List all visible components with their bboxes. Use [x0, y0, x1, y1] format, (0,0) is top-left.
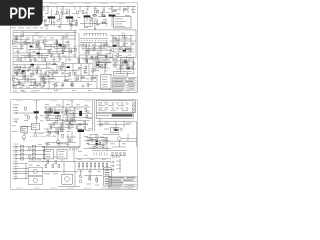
zone number [50, 100, 57, 103]
wire [80, 64, 82, 82]
resistor R63 [21, 149, 24, 152]
label [113, 58, 117, 61]
wire [106, 42, 108, 50]
label [61, 124, 65, 127]
label [84, 135, 88, 138]
label [30, 46, 34, 49]
meter M1 box [121, 58, 134, 74]
border tick [64, 99, 66, 100]
wire [52, 50, 74, 52]
capacitor C55 [43, 85, 45, 87]
wire [16, 65, 18, 76]
resistor R82 [69, 139, 71, 142]
label [113, 66, 117, 69]
label [59, 155, 65, 158]
wire dashed signal [44, 132, 56, 134]
label [24, 132, 28, 135]
wire [118, 141, 120, 148]
transistor Q14 [114, 129, 118, 131]
label [20, 89, 24, 92]
border tick [47, 189, 49, 190]
wire [28, 161, 45, 163]
label [65, 8, 69, 11]
resistor R104 [125, 48, 128, 50]
junction [72, 113, 73, 114]
label [62, 36, 66, 39]
label [52, 83, 56, 86]
wire [112, 10, 117, 12]
junction [73, 56, 76, 59]
label [112, 58, 116, 61]
wire [52, 68, 54, 79]
wire [71, 131, 73, 143]
capacitor C15 [120, 48, 122, 50]
resistor R127 [71, 119, 73, 122]
connector J11 [110, 169, 114, 171]
wire [127, 7, 129, 14]
label [125, 66, 129, 69]
transistor Q7 [113, 45, 117, 47]
resistor R120 [42, 76, 44, 79]
label [21, 84, 26, 87]
label [78, 66, 82, 69]
wire [52, 63, 57, 65]
zone number [16, 2, 23, 5]
wire [47, 7, 49, 14]
zone number [84, 2, 91, 5]
label [13, 90, 17, 93]
wire [30, 74, 32, 86]
wire [36, 100, 38, 111]
junction [57, 48, 58, 49]
border tick [47, 99, 49, 100]
label [26, 56, 29, 59]
sub box [98, 56, 108, 63]
label [68, 58, 72, 61]
resistor R54 [84, 122, 86, 125]
label [84, 52, 88, 55]
label [44, 78, 47, 81]
label [40, 19, 44, 22]
wire [79, 45, 110, 47]
capacitor C34 [112, 107, 114, 109]
label [14, 77, 18, 80]
wire [53, 72, 58, 74]
zone number [84, 187, 91, 190]
label [72, 12, 76, 15]
label [111, 46, 115, 49]
resistor R52 [85, 109, 87, 112]
label [116, 70, 120, 73]
transistor Q3 [84, 15, 91, 17]
label [46, 134, 50, 137]
label [121, 58, 125, 61]
wire [101, 15, 106, 17]
resistor R67 [21, 157, 24, 160]
capacitor C40 [79, 175, 82, 178]
resistor R56 [84, 127, 86, 130]
label [76, 103, 80, 106]
wire [56, 7, 58, 14]
label [44, 40, 47, 43]
resistor R59 [99, 107, 102, 109]
label [14, 143, 19, 146]
label [88, 48, 91, 51]
wire [66, 113, 92, 115]
label [127, 56, 130, 59]
capacitor C6 [124, 8, 126, 10]
resistor R65 [21, 153, 24, 156]
junction [128, 6, 129, 7]
resistor R98 [123, 35, 125, 38]
wire [54, 84, 56, 89]
label [105, 182, 110, 185]
resistor R133 [99, 142, 101, 145]
label [116, 167, 121, 170]
connector input R [13, 112, 17, 114]
label [112, 36, 116, 39]
transformer T1 [65, 177, 70, 182]
junction [112, 6, 113, 7]
capacitor C25 [62, 84, 64, 86]
wire [41, 53, 43, 62]
label [14, 45, 18, 48]
label [103, 147, 107, 150]
resistor R64 [33, 149, 36, 152]
label [110, 109, 116, 112]
title text [127, 187, 133, 190]
label [110, 142, 115, 145]
capacitor C45 [103, 11, 105, 13]
wire [62, 100, 64, 131]
label [49, 124, 53, 127]
resistor R116 [72, 84, 74, 87]
capacitor C27 [73, 119, 75, 121]
resistor R94 [75, 22, 77, 25]
wire [78, 33, 80, 60]
junction [55, 112, 56, 113]
wire [47, 128, 49, 134]
junction [44, 146, 45, 147]
zone number [67, 187, 74, 190]
border tick [13, 99, 15, 100]
capacitor C41 [79, 180, 82, 183]
ground symbol [23, 139, 26, 141]
wire [21, 14, 23, 19]
label [32, 78, 36, 81]
connector J8 [13, 178, 17, 180]
wire [90, 57, 112, 59]
resistor R109 [55, 72, 58, 74]
label [41, 41, 45, 44]
resistor R27 [91, 56, 93, 59]
wire [14, 36, 16, 44]
resistor R96 [102, 22, 105, 24]
label [65, 41, 69, 44]
resistor R23 [115, 38, 117, 41]
wire [116, 57, 118, 65]
wire [112, 54, 114, 59]
zone number [50, 187, 57, 190]
resistor R75 [120, 66, 122, 69]
label [104, 43, 108, 46]
zone number [16, 187, 23, 190]
wire [50, 9, 52, 24]
label [56, 104, 61, 107]
wire [53, 57, 55, 62]
label [14, 66, 18, 69]
label [95, 60, 99, 63]
label [110, 13, 114, 16]
label [75, 76, 78, 79]
junction [111, 15, 114, 18]
capacitor C8 [39, 47, 41, 49]
zone number [118, 2, 125, 5]
wire [14, 72, 26, 74]
resistor R29 [19, 67, 21, 70]
label [44, 172, 50, 175]
wire [20, 35, 22, 49]
capacitor C21 [55, 120, 58, 123]
label [132, 11, 136, 14]
wire [112, 60, 134, 62]
wire [44, 24, 76, 26]
wire [84, 140, 110, 142]
resistor R125 [59, 116, 61, 119]
wire [86, 8, 88, 22]
resistor R123 [34, 81, 36, 84]
capacitor C46 [69, 23, 71, 25]
label [13, 109, 18, 112]
junction [39, 57, 40, 58]
label [88, 89, 92, 92]
label [74, 19, 78, 22]
transistor Q10 [67, 66, 70, 68]
resistor R106 [62, 64, 64, 67]
wire [57, 127, 59, 140]
capacitor C26 [82, 85, 84, 87]
resistor R19 [62, 50, 64, 53]
label [65, 33, 68, 36]
capacitor C9 [51, 54, 53, 56]
label [105, 173, 110, 176]
title text [127, 84, 135, 85]
connector pin 3 [132, 108, 134, 110]
label [61, 61, 64, 64]
resistor R2 [61, 12, 63, 15]
wire [97, 19, 99, 26]
wire bus [44, 147, 46, 161]
title text [128, 78, 135, 79]
resistor R1 [57, 12, 59, 15]
wire [66, 124, 88, 126]
capacitor C48 [105, 44, 107, 46]
relay RY1 box [114, 17, 132, 29]
junction [22, 84, 25, 87]
wire comb cap [84, 32, 106, 34]
label [98, 104, 105, 107]
label [45, 153, 50, 156]
capacitor C56 [61, 84, 63, 86]
connector plate 2 [104, 177, 111, 186]
label [54, 156, 58, 159]
junction [36, 85, 39, 88]
resistor R87 [66, 11, 68, 14]
wire [73, 107, 75, 120]
zone number [101, 100, 108, 103]
border tick [30, 189, 32, 190]
wire [46, 130, 64, 132]
label [125, 14, 130, 17]
label [102, 158, 106, 161]
wire [17, 112, 34, 114]
resistor R4 [82, 11, 84, 14]
IC U7 block [44, 150, 54, 159]
label [88, 170, 92, 173]
label [79, 170, 83, 173]
junction [44, 150, 45, 151]
resistor R92 [22, 21, 24, 24]
label [14, 151, 19, 154]
title text [129, 85, 134, 88]
capacitor C22 [113, 128, 115, 130]
wire [46, 70, 78, 72]
meter lamp 2 [126, 66, 130, 70]
resistor R16 [20, 58, 22, 61]
label [24, 119, 28, 122]
label [108, 52, 112, 55]
label [59, 153, 64, 156]
wire [34, 130, 36, 133]
wire [68, 44, 70, 61]
resistor R132 [91, 139, 93, 142]
wire [82, 42, 84, 50]
capacitor C62 [61, 111, 63, 113]
transistor Q13 [54, 112, 60, 114]
label [98, 60, 102, 63]
label [54, 13, 58, 16]
label [46, 155, 50, 158]
resistor R14 [64, 45, 66, 48]
wire [69, 107, 71, 124]
zone number [33, 100, 40, 103]
resistor R60 [105, 107, 108, 109]
wire [77, 168, 111, 170]
connector pin 2 [132, 105, 134, 107]
resistor R115 [93, 77, 96, 79]
capacitor C50 [105, 64, 107, 66]
wire [74, 162, 76, 187]
resistor R66 [33, 153, 36, 156]
wire [50, 44, 52, 58]
wire [53, 19, 55, 26]
label [91, 67, 94, 70]
border tick [115, 99, 117, 100]
wire bus [13, 30, 77, 32]
label [69, 119, 73, 122]
label [68, 127, 72, 130]
label [13, 86, 17, 89]
label [102, 83, 107, 86]
label [95, 184, 99, 187]
label [93, 17, 97, 20]
wire [46, 142, 76, 144]
label [34, 84, 38, 87]
connector J6 [13, 168, 17, 170]
capacitor C12 [59, 58, 61, 60]
wire [124, 35, 126, 46]
wire [46, 120, 90, 122]
capacitor C18 [21, 72, 23, 74]
wire [64, 80, 96, 82]
resistor R36 [27, 78, 29, 81]
wire [59, 15, 61, 20]
capacitor C29 [87, 110, 89, 112]
border tick [30, 99, 32, 100]
resistor R3 [77, 11, 79, 14]
label [48, 71, 52, 74]
label [57, 25, 61, 28]
wire [59, 143, 61, 146]
wire [22, 68, 24, 79]
op-amp U11 [33, 169, 37, 173]
label [102, 8, 105, 11]
label [98, 65, 102, 68]
label [31, 84, 35, 87]
wire [51, 21, 53, 26]
connector J10 pin row [84, 33, 106, 36]
label [48, 50, 52, 53]
wire [13, 69, 42, 71]
label [33, 86, 37, 89]
capacitor C49 [106, 55, 108, 57]
label [11, 27, 16, 30]
wire dashed [30, 131, 44, 133]
label [34, 59, 38, 62]
connector plate 1 [104, 168, 111, 177]
wire [92, 63, 94, 75]
label [128, 70, 132, 73]
label [87, 139, 91, 142]
wire [103, 140, 137, 142]
resistor R46 [66, 109, 68, 112]
wire [94, 42, 96, 50]
label [32, 50, 36, 53]
wire [30, 73, 46, 75]
resistor R30 [29, 67, 31, 70]
wire [112, 35, 114, 46]
label [16, 83, 20, 86]
switch contact 1 [111, 152, 113, 154]
capacitor C33 [126, 102, 128, 104]
wire [110, 40, 136, 42]
transistor Q12 [35, 116, 38, 119]
label [64, 114, 68, 117]
resistor R51 [68, 126, 70, 129]
capacitor C11 [30, 59, 32, 61]
label [19, 86, 23, 89]
resistor R10 [48, 50, 50, 53]
resistor R124 [51, 109, 53, 112]
zone number [50, 2, 57, 5]
resistor R18 [56, 41, 58, 44]
label [15, 41, 19, 44]
label [31, 5, 35, 8]
wire [24, 65, 26, 82]
resistor R55 [76, 126, 78, 129]
label [14, 147, 19, 150]
wire [120, 155, 122, 156]
